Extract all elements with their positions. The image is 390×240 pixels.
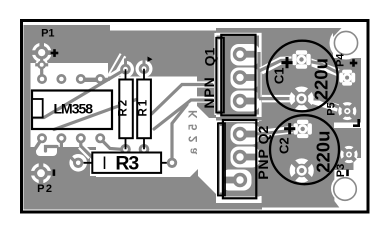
label R3 — [115, 153, 139, 175]
label P2 — [37, 183, 53, 195]
label Q1 — [202, 47, 218, 66]
ground pour bottom band — [60, 169, 216, 210]
pad Q1 base — [233, 70, 257, 84]
wire pin8 to R2 bottom pad — [100, 139, 121, 150]
text K52a (mirrored copper text) — [188, 110, 200, 160]
ground pour behind Q2 labels — [259, 121, 263, 196]
label P1 — [41, 27, 54, 39]
pin1 arrow mark near R1 top — [148, 57, 153, 63]
wire pin5 diagonal up — [100, 55, 123, 80]
wire diagonal under resistors — [54, 95, 150, 130]
svg-text:220u: 220u — [311, 58, 332, 100]
ground pour sliver under Q2 — [216, 203, 262, 210]
pad C1 minus round thermal — [289, 87, 313, 111]
svg-text:Q1: Q1 — [202, 47, 218, 66]
wire pin7 to R3 left pad — [61, 139, 74, 162]
clearance white around R3 body — [90, 150, 163, 176]
ground mark near P5 — [353, 119, 360, 127]
svg-text:P5: P5 — [325, 102, 337, 115]
pad IC pin 4 — [95, 74, 105, 84]
svg-text:P2: P2 — [37, 183, 53, 195]
svg-text:K52a: K52a — [188, 110, 200, 160]
ground pour left strip — [24, 25, 31, 210]
wire R2 top pad thermal spoke — [124, 59, 127, 67]
pad R3 left — [73, 158, 83, 168]
pour inside Q1 body — [217, 36, 260, 115]
pad IC pin 7 — [76, 133, 86, 143]
wire P1 pad to pin1 — [40, 55, 43, 79]
pad P2 thermal — [30, 162, 52, 184]
wire Q1 to C1 minus pad — [259, 95, 302, 103]
clearance pockets inside Q2 — [220, 124, 260, 193]
wire T2 to Q1 — [154, 100, 214, 130]
svg-text:P4: P4 — [335, 53, 347, 67]
label R2 — [117, 98, 129, 117]
wire R3 right pad up to T2 — [172, 105, 187, 163]
label P3 — [335, 164, 347, 177]
wire pad1 to ground pour — [34, 139, 42, 151]
clearance pockets around R2 R1 top pads — [117, 60, 153, 78]
mounting hole bottom-right — [334, 178, 357, 201]
ground pour column left of Q1 (NPN area) — [197, 77, 216, 119]
svg-text:P1: P1 — [41, 27, 54, 39]
pad R3 right — [167, 158, 177, 168]
wire P2 elbow — [46, 147, 58, 152]
pad IC pin 2 — [56, 74, 66, 84]
svg-text:C1: C1 — [272, 67, 287, 84]
wire C1 minus pad to P5 — [302, 99, 348, 111]
wire T1 to Q1 base row — [152, 85, 215, 115]
wire Q1 vertical in clearance strip — [257, 52, 260, 99]
via below P1 — [35, 58, 48, 71]
pad IC pin 5 — [37, 133, 47, 143]
label R1 — [137, 98, 149, 117]
capacitor C2 outline — [270, 115, 339, 184]
ground pour bottom-left mass — [24, 147, 97, 210]
label PNP — [255, 148, 271, 179]
wire Q2 top pad to C2 plus pad — [257, 129, 303, 134]
svg-text:NPN: NPN — [201, 77, 217, 109]
svg-text:R2: R2 — [117, 98, 129, 117]
label NPN — [201, 77, 217, 109]
pad IC pin 1 — [37, 74, 47, 84]
wire bar pins 5-6 — [81, 78, 100, 82]
wire pin6 down to pour — [81, 139, 93, 159]
svg-text:R3: R3 — [115, 153, 139, 175]
clearance pocket R3 left pad — [69, 154, 87, 172]
ground pour above Q1 — [216, 28, 262, 33]
label C1 — [272, 67, 287, 84]
label Q2 — [255, 125, 271, 144]
clearance around top-right hole — [330, 27, 363, 60]
plus mark C1 — [281, 57, 292, 68]
svg-text:Q2: Q2 — [255, 125, 271, 144]
label C2 220u — [312, 131, 333, 173]
ground pour right mass — [262, 28, 361, 208]
pour inside Q2 body — [218, 122, 260, 197]
wire Q1 top pad to C1 plus pad — [259, 60, 302, 71]
transistor Q1 outline — [216, 35, 255, 116]
pad P4 square thermal — [339, 69, 356, 86]
ground pour top-left — [24, 25, 111, 63]
label C2 — [277, 137, 292, 154]
clearance pocket P1 trace — [37, 58, 48, 67]
pad IC pin 3 — [76, 74, 86, 84]
svg-text:220u: 220u — [312, 131, 333, 173]
pad R1 bottom — [139, 144, 150, 155]
ground pour strip between Q1 and Q2 — [216, 117, 262, 121]
label P4 — [335, 53, 347, 67]
resistor R2 outline — [119, 69, 133, 149]
svg-text:C2: C2 — [277, 137, 292, 154]
label C1 220u — [311, 58, 332, 100]
plus mark C2 — [284, 123, 295, 134]
op-amp U1 LM358 outline — [32, 91, 112, 130]
pad IC pin 6 — [56, 133, 66, 143]
pad Q2 collector — [233, 127, 257, 141]
pad P5 round thermal — [338, 102, 356, 120]
mounting hole top-right — [334, 31, 357, 54]
svg-text:P3: P3 — [335, 164, 347, 177]
label LM358 — [54, 100, 94, 116]
clearance pockets inside Q1 — [214, 33, 260, 115]
pad Q1 collector — [233, 47, 257, 61]
wire R1 top pad thermal spoke — [143, 58, 146, 66]
plus mark P4 — [350, 59, 358, 66]
minus mark P2 — [53, 169, 56, 176]
svg-text:R1: R1 — [137, 98, 149, 117]
transistor Q2 outline — [218, 120, 256, 198]
pad IC pin 8 — [95, 133, 105, 143]
pad C2 minus round thermal — [290, 158, 314, 182]
clearance band between P5 and P3 — [334, 123, 361, 129]
clearance pocket P2 elbow — [36, 141, 57, 156]
pad Q1 emitter — [233, 94, 257, 108]
minus mark P3 — [346, 170, 349, 177]
pad C2 plus square thermal — [293, 119, 313, 139]
wire C1 plus pad to P4 — [302, 60, 348, 78]
label P5 — [325, 102, 337, 115]
resistor R1 outline — [137, 69, 151, 150]
svg-text:LM358: LM358 — [54, 100, 94, 116]
pad P3 round thermal — [340, 146, 357, 163]
capacitor C1 outline — [267, 41, 338, 112]
resistor R3 outline — [84, 153, 167, 173]
svg-text:PNP: PNP — [255, 148, 271, 179]
ground pour top-middle — [108, 31, 216, 77]
pad R2 top — [120, 64, 131, 75]
plus mark P1 — [51, 49, 59, 57]
pad Q2 base — [233, 150, 257, 164]
pad C1 plus square thermal — [292, 50, 312, 70]
clearance around bottom-right hole — [331, 158, 367, 211]
pad P1 thermal — [31, 42, 52, 63]
pad R2 bottom — [120, 144, 131, 155]
pad R1 top — [139, 63, 150, 74]
wire diagonal to R2 top pad — [33, 69, 126, 117]
pad Q2 emitter — [224, 173, 248, 187]
board frame — [22, 21, 369, 213]
